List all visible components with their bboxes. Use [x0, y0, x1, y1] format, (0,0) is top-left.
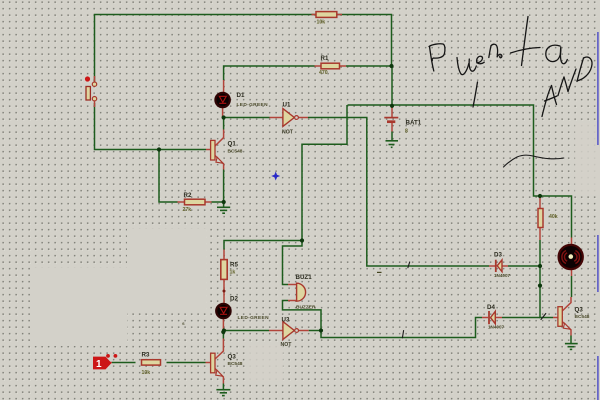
wire R5 row: [224, 241, 302, 250]
wire 40k down to Q3 base: [540, 240, 553, 318]
transistor Q1: [211, 140, 223, 163]
pin Q3 collector: [562, 297, 571, 311]
pin switch top: [94, 76, 96, 82]
resistor top 10k: [316, 12, 337, 18]
pin motor bottom: [571, 270, 573, 277]
svg-text:27k: 27k: [183, 207, 192, 213]
resistor R3: [142, 360, 161, 365]
blue origin marker: [271, 172, 280, 181]
wire branch down to R2: [159, 150, 178, 203]
small dash mark: [377, 271, 382, 273]
svg-text:BUZZER: BUZZER: [296, 305, 316, 311]
wire U3 output to node: [309, 330, 321, 332]
svg-text:1k: 1k: [230, 270, 236, 276]
resistor R1: [321, 63, 340, 69]
pin battery top: [391, 107, 393, 118]
ground Q2: [216, 390, 230, 396]
svg-text:D3: D3: [494, 252, 502, 259]
svg-text:R2: R2: [184, 192, 192, 199]
handwriting Puenta: [429, 17, 567, 108]
pin R2 stubs: [178, 201, 185, 203]
diode D4: [489, 311, 495, 324]
wire R2 right to ground node: [212, 201, 224, 203]
pin Q1 emitter: [215, 156, 224, 170]
pin joint dot R5-D2: [223, 290, 226, 293]
svg-text:1: 1: [96, 359, 102, 370]
svg-text:10k: 10k: [142, 370, 151, 376]
wire top-right rail: [348, 105, 572, 238]
pin battery bottom: [391, 122, 393, 132]
svg-text:Q3: Q3: [575, 307, 584, 314]
pin buzzer bottom: [288, 300, 297, 302]
pin Q3 base: [553, 317, 558, 319]
pin buzzer top: [288, 284, 297, 286]
switch button: [85, 76, 97, 101]
svg-text:LED-GREEN: LED-GREEN: [238, 315, 270, 321]
pin top resistor stubs: [312, 14, 317, 16]
svg-text:40k: 40k: [549, 214, 558, 220]
svg-text:s: s: [182, 322, 185, 327]
wire U1 output run: [308, 118, 489, 267]
pin U1 output: [298, 117, 308, 119]
pin Q3 emitter: [562, 322, 571, 336]
svg-text:BC548: BC548: [575, 314, 590, 320]
pin U3 output: [299, 330, 309, 332]
svg-text:1N4007: 1N4007: [494, 273, 511, 278]
resistor R2: [185, 199, 206, 205]
pin Q1 base: [206, 149, 211, 151]
diode D3: [496, 260, 502, 272]
svg-text:10k: 10k: [317, 20, 326, 26]
svg-text:R1: R1: [321, 55, 329, 62]
pin R1 stubs: [315, 65, 322, 67]
pin U1 input: [270, 117, 283, 119]
wire top rail: [95, 15, 392, 83]
wire D2 node to U3 input: [224, 330, 269, 332]
wire motor bottom green: [571, 276, 573, 297]
svg-text:LED-GREEN: LED-GREEN: [237, 102, 269, 108]
resistor 40k: [538, 209, 543, 228]
svg-text:U3: U3: [282, 317, 290, 324]
svg-text:BC548: BC548: [228, 361, 243, 367]
tick on D4 wire: [402, 331, 403, 338]
svg-text:D4: D4: [487, 304, 495, 311]
wire buzzer top path: [283, 241, 303, 285]
pin D2 bottom: [222, 319, 224, 331]
wire D4 right to Q3 base node: [502, 317, 540, 319]
wire U1 node link to rail: [302, 105, 347, 241]
ground battery: [386, 141, 399, 148]
buzzer BUZ1: [297, 283, 306, 301]
svg-text:R3: R3: [142, 352, 150, 359]
wire logic1 to R3: [112, 362, 136, 364]
svg-text:D1: D1: [237, 92, 245, 99]
svg-text:R5: R5: [230, 262, 238, 269]
wire Q2 collector up to node: [222, 331, 224, 339]
svg-text:BAT1: BAT1: [406, 120, 422, 127]
ground Q1-R2: [217, 207, 230, 213]
svg-text:U1: U1: [283, 102, 291, 109]
svg-text:NOT: NOT: [282, 129, 294, 135]
wire switch bottom to Q1 base row: [95, 103, 207, 150]
svg-text:8: 8: [405, 129, 408, 135]
handwriting AND: [542, 57, 592, 116]
wire node down and left run to D4: [321, 318, 482, 338]
wire buzzer bottom path: [283, 301, 322, 331]
handwriting squiggle: [504, 155, 564, 167]
svg-text:BUZ1: BUZ1: [296, 274, 313, 281]
blue window edge line right: [597, 32, 599, 400]
LED D1: [215, 93, 229, 107]
wire R3 to Q2 base: [167, 362, 206, 364]
svg-text:NOT: NOT: [281, 342, 293, 348]
transistor Q3: [558, 307, 570, 330]
pin 40k stubs: [539, 197, 541, 209]
wire battery column: [391, 66, 393, 108]
pin D1 top: [223, 80, 225, 93]
pin R5 top: [223, 250, 225, 260]
wire node to U1 input: [224, 117, 270, 119]
wire battery to ground: [391, 132, 393, 141]
pin D4 stubs: [482, 317, 488, 319]
wire Q1 emitter down: [223, 170, 225, 208]
tick on Q3 base wire: [541, 314, 546, 320]
pin switch bottom: [94, 101, 96, 107]
pin Q2 base: [206, 362, 211, 364]
svg-text:BC548: BC548: [228, 149, 243, 155]
pin Q1 collector: [215, 130, 224, 147]
svg-text:470: 470: [319, 70, 328, 76]
pin D3 stubs: [489, 265, 495, 267]
wire Q1 collector up to node: [223, 118, 225, 130]
svg-text:D2: D2: [230, 296, 238, 303]
motor / sounder: [559, 245, 583, 269]
logic state 1: [93, 354, 117, 370]
op-amp U3 NOT gate: [283, 322, 299, 340]
pin motor top: [571, 238, 573, 246]
wire D3 right to node: [508, 265, 540, 267]
op-amp U1 NOT gate: [283, 109, 299, 127]
tick on D3 wire: [408, 262, 410, 268]
resistor R5: [221, 260, 227, 280]
wire Q2 emitter to ground: [222, 384, 224, 390]
wire R1 right: [346, 65, 392, 67]
transistor Q2: [211, 353, 223, 376]
LED D2: [216, 304, 230, 318]
pin Q2 emitter: [215, 369, 223, 384]
pin logic1 stub: [106, 362, 112, 364]
svg-text:1N4007: 1N4007: [488, 325, 505, 330]
pin R5 bottom to D2: [223, 279, 225, 303]
battery BAT1: [384, 118, 398, 122]
ground Q3: [565, 344, 578, 350]
wire R1 row to D1: [224, 66, 315, 80]
pin Q2 collector: [215, 339, 223, 360]
wire Q3 emitter to ground: [570, 336, 572, 344]
svg-text:Q1: Q1: [228, 141, 237, 148]
pin D1 bottom: [222, 108, 224, 118]
svg-text:Q3: Q3: [228, 354, 237, 361]
pin U3 input: [269, 330, 283, 332]
